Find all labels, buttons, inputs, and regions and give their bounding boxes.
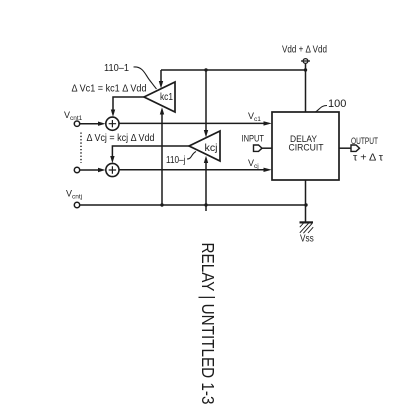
svg-text:100: 100 [328, 98, 346, 110]
wire kcj bottom input (from Vss rail, overshoot) [204, 156, 208, 211]
terminal Vcntj [66, 189, 82, 208]
svg-text:Vcntj: Vcntj [66, 189, 82, 201]
svg-text:Vc1: Vc1 [248, 111, 261, 123]
svg-text:RELAY | UNTITLED 1-3: RELAY | UNTITLED 1-3 [198, 243, 218, 405]
svg-text:Δ Vc1 = kc1 Δ Vdd: Δ Vc1 = kc1 Δ Vdd [72, 84, 147, 95]
label 100 with leader [316, 98, 347, 112]
amplifier U2 kcj (110-j) [189, 131, 220, 161]
svg-text:110–j: 110–j [166, 154, 186, 166]
svg-text:Vcj: Vcj [248, 158, 259, 170]
svg-text:Δ Vcj = kcj Δ Vdd: Δ Vcj = kcj Δ Vdd [87, 133, 155, 144]
svg-text:kcj: kcj [205, 142, 218, 154]
wire Vcnt1 to S1 [80, 122, 106, 126]
ground Vss [300, 222, 314, 244]
svg-text:Vdd + Δ Vdd: Vdd + Δ Vdd [282, 45, 327, 56]
power terminal Vdd+dVdd [301, 59, 310, 64]
wire Vdd vertical to delay circuit [305, 64, 307, 112]
wire kcj output to summing junction [110, 146, 189, 163]
wire Vc1 line to delay circuit [119, 121, 272, 125]
node junction Vss rail to ground stem [304, 203, 307, 206]
label 110-j with leader [166, 152, 196, 167]
svg-text:Vss: Vss [300, 233, 314, 244]
wire delay circuit bottom to ground [305, 180, 307, 222]
svg-text:kc1: kc1 [160, 91, 173, 103]
amplifier U1 kc1 (110-1) [144, 82, 175, 112]
wire Vdd rail (y=70) [161, 69, 306, 71]
terminal control-j [74, 167, 79, 172]
wire kcj top feed [204, 70, 208, 138]
node junction Vdd vertical [304, 68, 307, 71]
wire kc1 top input [159, 70, 163, 89]
svg-text:Vcnt1: Vcnt1 [64, 110, 83, 122]
summing junction S2 [106, 163, 119, 176]
node junction kcj bottom on Vss rail [204, 203, 207, 206]
label 110-1 with leader [104, 62, 157, 89]
summing junction S1 [106, 117, 119, 130]
terminal Vcnt1 [64, 110, 83, 126]
wire control-j to S2 [80, 168, 106, 172]
wire kc1 output to summing junction [111, 97, 144, 117]
node junction kc1 bottom on Vss rail [160, 203, 163, 206]
wire Vss rail (y=205) [80, 204, 306, 206]
svg-text:CIRCUIT: CIRCUIT [289, 143, 324, 154]
ellipsis dotted line [80, 133, 82, 164]
svg-text:τ + Δ τ: τ + Δ τ [353, 153, 383, 164]
output terminal OUTPUT [339, 136, 383, 164]
svg-text:INPUT: INPUT [242, 133, 265, 143]
input terminal INPUT [242, 133, 273, 151]
delay circuit block 100 [272, 112, 339, 180]
wire Vcj line to delay circuit [119, 168, 272, 172]
svg-text:OUTPUT: OUTPUT [351, 136, 378, 146]
svg-text:110–1: 110–1 [104, 62, 129, 74]
wire kc1 bottom input (from Vss rail) [160, 107, 164, 205]
node junction kcj top feed [204, 68, 207, 71]
